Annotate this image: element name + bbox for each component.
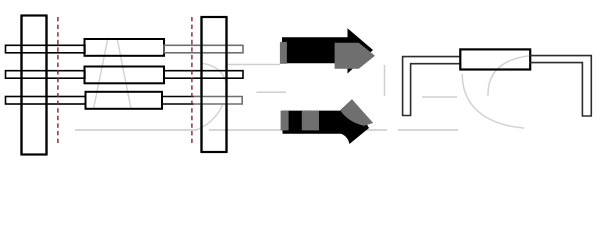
- white fills underlay (tapes, bodies, leads, formed component): [5, 14, 592, 155]
- formed resistor right bent lead: [530, 56, 592, 116]
- row 3 resistor body: [86, 92, 163, 109]
- tape right re-struck edges: [202, 17, 227, 152]
- row 2 right lead: [164, 71, 243, 79]
- row 1 right lead (cut-off, gray): [164, 45, 243, 53]
- carrier tape right: [202, 17, 227, 152]
- watermark E mid bar: [257, 91, 287, 93]
- watermark letter C inner arc: [488, 56, 532, 97]
- formed resistor left bent lead: [403, 57, 461, 116]
- watermark T stem: [384, 65, 386, 96]
- watermark E top bar: [228, 64, 280, 66]
- watermark baseline right segment b: [398, 129, 458, 131]
- bottom block arrow gray tail stripe: [281, 111, 289, 131]
- row 2 left lead: [6, 71, 85, 79]
- carrier tape left: [22, 16, 47, 155]
- watermark letter C outer arc: [462, 74, 524, 128]
- row 1 left lead: [6, 45, 85, 53]
- row 3 right lead kept part: [162, 97, 200, 105]
- row 3 left lead: [6, 97, 86, 105]
- watermark letter B bowl: [197, 64, 227, 130]
- watermark letter A right leg: [118, 40, 132, 109]
- row 3 right lead cut-off part (gray): [194, 96, 243, 105]
- cut line left (red dashed): [57, 17, 59, 145]
- watermark letter A left leg: [94, 38, 109, 110]
- watermark baseline mid segment: [209, 129, 283, 131]
- formed resistor body: [460, 49, 530, 69]
- watermark baseline right segment a: [350, 129, 387, 131]
- row 2 resistor body: [85, 67, 165, 84]
- bottom block arrow gray head overlay: [341, 99, 374, 126]
- top block arrow gray overlay arrow: [335, 43, 375, 69]
- cut line right (red dashed): [191, 17, 193, 145]
- bottom block arrow black: [283, 99, 370, 144]
- top block arrow black: [282, 28, 373, 73]
- tape left re-struck edges: [22, 16, 47, 155]
- top block arrow gray tail stripe: [280, 42, 287, 64]
- watermark E2 mid bar: [422, 96, 457, 98]
- watermark baseline left segment: [75, 129, 198, 131]
- row 1 resistor body: [85, 39, 165, 56]
- bottom block arrow gray mid stripe: [302, 111, 319, 131]
